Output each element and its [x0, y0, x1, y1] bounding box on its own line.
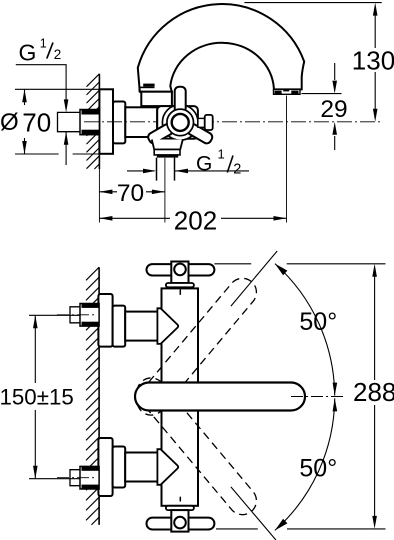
valve outer circle — [162, 105, 198, 141]
svg-text:70: 70 — [22, 108, 51, 138]
union cone — [157, 449, 178, 485]
dim 202 — [99, 96, 286, 236]
svg-text:G: G — [19, 40, 37, 66]
svg-text:50°: 50° — [299, 455, 337, 483]
diverter knob (right) — [198, 118, 205, 127]
pill centerline — [291, 396, 344, 398]
centerline inlet axis (top view) — [84, 121, 382, 123]
dim 29 — [302, 63, 348, 150]
text G 1/2 (top left) — [19, 36, 62, 65]
svg-text:288: 288 — [353, 377, 394, 407]
svg-text:70: 70 — [117, 180, 144, 207]
dim 70 (wall to outlet) — [99, 158, 164, 223]
dim 130 — [244, 3, 394, 122]
lower taper of body — [152, 140, 183, 150]
union nut (top view) — [80, 110, 99, 135]
spout curved tube — [138, 4, 304, 92]
svg-text:2: 2 — [54, 47, 62, 62]
body (front view) — [162, 288, 199, 505]
union cone — [157, 308, 178, 344]
swing axis extension lines — [231, 251, 277, 306]
inlet pipe — [125, 312, 157, 341]
svg-text:202: 202 — [174, 206, 217, 236]
inlet centerline — [57, 314, 96, 316]
leader/dim for G1/2 stub — [16, 65, 66, 104]
svg-text:1: 1 — [40, 36, 47, 50]
G1/2 outlet dim arrows — [127, 170, 155, 172]
shower outlet fitting — [154, 150, 180, 155]
valve middle circle — [167, 109, 194, 136]
dia 70 dimension — [0, 89, 99, 154]
svg-text:2: 2 — [233, 162, 241, 178]
dim 150 +/- 15 — [0, 315, 80, 478]
svg-text:50°: 50° — [299, 308, 337, 336]
connection pipe to body — [125, 107, 157, 137]
inlet pipe — [125, 453, 157, 482]
text G 1/2 (outlet) — [196, 146, 241, 177]
aerator at spout outlet — [274, 89, 301, 94]
spout lever pill (front view) — [135, 383, 305, 411]
inlet flange step — [113, 447, 126, 488]
svg-text:29: 29 — [320, 96, 347, 123]
dashed swing position (down 50deg) — [131, 372, 262, 520]
inlet flange step — [113, 306, 126, 347]
union nut — [80, 466, 99, 489]
dim 288 — [214, 264, 394, 529]
escutcheon flange (top view) — [99, 89, 113, 154]
svg-text:Ø: Ø — [0, 109, 19, 136]
outlet thread stub — [156, 158, 158, 181]
handle hub circle — [172, 114, 189, 131]
wall (front view) with hatching — [86, 267, 99, 525]
centerline overlay through connector — [84, 121, 157, 123]
svg-text:130: 130 — [352, 46, 394, 76]
dashed swing position (up 50deg) — [131, 273, 262, 421]
spout shank with set screw — [139, 86, 154, 88]
union nut — [80, 304, 99, 327]
spout union flange — [141, 92, 172, 106]
inlet centerline — [57, 477, 96, 479]
inlet escutcheon flange — [98, 438, 112, 496]
50deg arc (lower) — [275, 398, 335, 530]
svg-text:1: 1 — [218, 146, 225, 161]
inlet thread stub — [70, 470, 80, 486]
wall (top view) with hatching — [87, 74, 100, 169]
flange step — [113, 102, 125, 144]
50deg arc (upper) — [275, 264, 335, 396]
inlet escutcheon flange — [98, 294, 112, 347]
svg-text:G: G — [196, 152, 212, 175]
valve body square (top view) — [157, 106, 198, 139]
G1/2 thread stub (top view) — [58, 112, 81, 131]
top cross handle — [147, 262, 215, 295]
bottom cross handle — [147, 497, 215, 532]
handle spokes (3x) — [175, 87, 186, 113]
inlet thread stub — [70, 307, 80, 323]
svg-text:150±15: 150±15 — [0, 384, 74, 409]
